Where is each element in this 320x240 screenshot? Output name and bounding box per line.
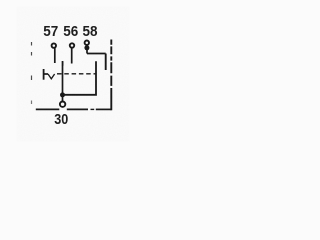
- wire stub from terminal 56: [71, 47, 73, 64]
- housing box left dashed edge dash 4: [31, 101, 33, 105]
- wiper top wedge: [62, 61, 64, 66]
- fixed contact finger of 58: [105, 54, 107, 71]
- housing box left dashed edge dash 2: [31, 52, 33, 56]
- housing box left dashed edge dash 3: [31, 76, 33, 81]
- wire from junction to terminal 30: [62, 95, 64, 101]
- junction dot below terminal 58: [84, 45, 89, 50]
- wire from 58 horizontal: [87, 53, 106, 55]
- wiper feed wire vertical: [62, 61, 64, 95]
- switch arm: [44, 73, 48, 75]
- housing box bottom edge right solid part: [96, 108, 112, 110]
- mechanical linkage dashed line: [57, 73, 96, 75]
- housing box left dashed edge dash 1: [31, 42, 33, 46]
- terminal circle 56: [70, 43, 74, 47]
- housing box bottom edge dash: [91, 108, 95, 110]
- terminal circle 58: [85, 41, 89, 45]
- terminal circle 30: [60, 102, 65, 107]
- housing box bottom edge solid part 2: [67, 108, 88, 110]
- terminal circle 57: [52, 43, 56, 47]
- housing box right dash-dot edge: [110, 40, 112, 111]
- housing box bottom edge solid part: [36, 108, 60, 110]
- right contact bar vertical: [63, 61, 97, 95]
- scan noise overlay: [0, 0, 1, 1]
- switch contact bar: [43, 69, 45, 80]
- wire stub from terminal 57: [54, 47, 56, 63]
- wire from dot 58 down to horizontal: [86, 48, 88, 54]
- junction dot node 30: [60, 92, 65, 97]
- switch detent v-notch: [48, 74, 55, 79]
